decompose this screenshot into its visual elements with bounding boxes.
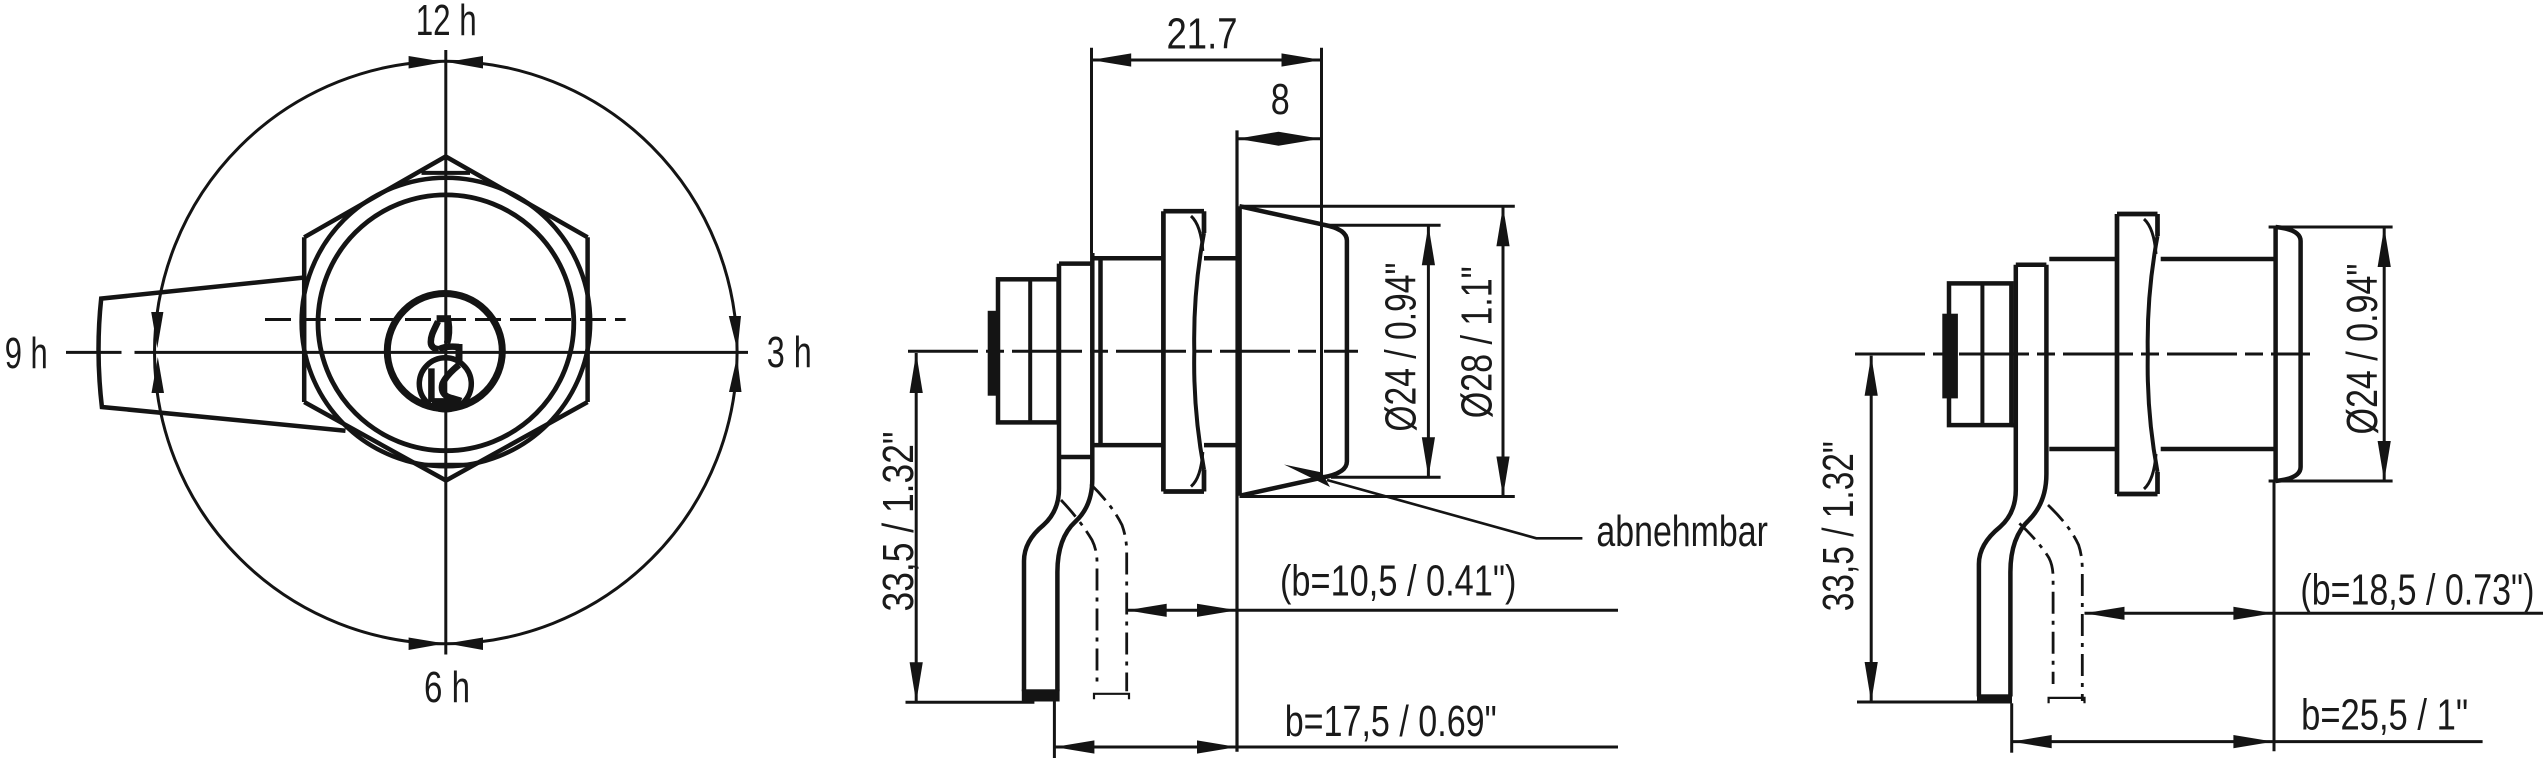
dim 21.7 line	[1091, 59, 1321, 62]
dim 8 arrows	[1237, 132, 1279, 146]
body top edge	[1094, 256, 1240, 261]
lever left edge right view	[1979, 265, 2016, 697]
big clock circle	[155, 61, 738, 644]
abnehmbar leader	[1327, 480, 1582, 538]
phantom cam outer right	[2048, 505, 2082, 701]
keyway top bar	[437, 315, 451, 322]
arrowheads 12h	[409, 56, 445, 69]
keyway lower S	[442, 365, 461, 401]
dashed horizontal line	[265, 318, 626, 321]
nut chamfer lines	[1191, 216, 1203, 487]
step piece right	[2016, 262, 2047, 267]
svg-text:12 h: 12 h	[416, 0, 477, 45]
arrowheads 9h	[151, 312, 163, 348]
lever right edge right view	[2010, 265, 2046, 697]
knob body	[998, 279, 1059, 422]
vertical centerline	[444, 50, 447, 655]
centerline right	[1855, 353, 2310, 356]
lever left edge	[1024, 264, 1059, 692]
dim D24 line	[1427, 225, 1430, 477]
dim D24 right line	[2383, 227, 2386, 481]
dim 21.7 arrows	[1091, 53, 1131, 66]
keyway left stroke	[431, 322, 439, 350]
dim D28 extension lines	[1240, 206, 1515, 496]
body bottom edge right	[2049, 447, 2275, 452]
svg-text:b=17,5 / 0.69": b=17,5 / 0.69"	[1285, 697, 1497, 746]
nut concave face right	[2148, 236, 2158, 472]
inner face circle	[318, 195, 574, 451]
hexagon chamfer chords	[422, 173, 471, 465]
knob inner line right	[1980, 283, 1984, 425]
svg-text:8: 8	[1271, 75, 1290, 124]
knob bottom bridge	[2011, 423, 2015, 428]
keyway right bar	[456, 344, 463, 365]
dim b10.5 arrows	[1127, 604, 1167, 617]
svg-text:b=25,5 / 1": b=25,5 / 1"	[2301, 691, 2468, 740]
dim 8 line	[1237, 137, 1321, 140]
knob body right	[1949, 283, 2011, 425]
abnehmbar leader arrow	[1284, 465, 1330, 488]
wing key grip	[99, 278, 346, 431]
dim D28 line	[1502, 206, 1505, 496]
lever bottom thick bar right	[1977, 694, 2012, 703]
dim 33.5 right ref line	[1857, 701, 2012, 704]
phantom cam outer line	[1091, 484, 1127, 691]
knob front bar	[988, 311, 1000, 396]
dim b10.5 line	[1127, 609, 1618, 612]
sleeve cup mouth edge	[1237, 206, 1242, 496]
lever back face line	[1098, 260, 1103, 445]
dim 33.5 right arrows	[1865, 356, 1878, 396]
outer face circle	[302, 178, 591, 467]
knob front bar right	[1942, 314, 1958, 399]
dim D28 arrows	[1496, 206, 1509, 246]
keyway cross bar	[439, 347, 459, 350]
dim D24 right arrows	[2378, 227, 2391, 267]
svg-text:33,5 / 1.32": 33,5 / 1.32"	[874, 432, 923, 612]
keyway right strand	[447, 322, 449, 344]
dim 33.5 middle ref line	[906, 701, 1035, 704]
flange mouth face	[2273, 227, 2278, 481]
horizontal centerline	[66, 351, 748, 354]
arrowheads 6h	[409, 638, 445, 651]
svg-text:9 h: 9 h	[5, 329, 48, 378]
nut right side view	[2117, 214, 2158, 494]
phantom cam inner right	[2019, 523, 2053, 684]
lever right edge	[1057, 253, 1092, 691]
dim 33.5 middle arrows	[910, 353, 923, 393]
svg-text:Ø24 / 0.94": Ø24 / 0.94"	[2338, 264, 2387, 435]
svg-text:Ø28 / 1.1": Ø28 / 1.1"	[1453, 266, 1502, 418]
dim D24 extension lines	[1322, 225, 1441, 477]
dim b17.5 line	[1054, 746, 1618, 749]
svg-text:(b=10,5 / 0.41"): (b=10,5 / 0.41")	[1280, 557, 1517, 606]
dim D24 right ext lines	[2269, 227, 2393, 481]
keyway bottom bar	[432, 398, 460, 405]
dim b17.5 arrows	[1054, 740, 1094, 753]
svg-text:(b=18,5 / 0.73"): (b=18,5 / 0.73")	[2300, 565, 2534, 614]
mounting plane reference line	[1235, 130, 1238, 751]
knob inner line	[1028, 279, 1032, 422]
dim 33.5 right line	[1870, 356, 1873, 702]
svg-text:Ø24 / 0.94": Ø24 / 0.94"	[1377, 263, 1426, 432]
phantom cam bottom right	[2049, 698, 2085, 703]
dim b17.5 extension	[1053, 700, 1056, 758]
flange profile	[2276, 227, 2301, 481]
dim D24 arrows	[1422, 225, 1435, 265]
step piece	[1059, 264, 1092, 457]
dim b18.5 line	[2085, 612, 2544, 615]
nut concave face	[1194, 233, 1204, 470]
nut chamfer right	[2144, 219, 2156, 489]
svg-text:21.7: 21.7	[1167, 10, 1238, 59]
dim 21.7 extension lines	[1092, 48, 1322, 480]
dim b25.5 arrows	[2012, 735, 2052, 748]
key plug circle	[387, 294, 502, 409]
dim 33.5 middle line	[915, 353, 918, 702]
centerline middle	[908, 350, 1358, 353]
dim b18.5 arrows	[2085, 607, 2125, 620]
svg-text:3 h: 3 h	[767, 328, 812, 377]
lever bottom thick bar	[1022, 689, 1060, 701]
body bottom edge	[1094, 443, 1240, 448]
svg-text:33,5 / 1.32": 33,5 / 1.32"	[1814, 441, 1863, 611]
arrowheads 3h	[729, 316, 741, 351]
hexagon nut edges	[304, 157, 587, 481]
svg-text:abnehmbar: abnehmbar	[1596, 507, 1768, 556]
nut side view	[1163, 211, 1204, 491]
dim b25.5 line	[2012, 740, 2483, 743]
dim b25.5 extension	[2010, 703, 2013, 752]
plane reference right	[2273, 481, 2276, 751]
phantom cam inner line	[1061, 500, 1097, 682]
hexagon flats	[304, 237, 587, 402]
svg-text:6 h: 6 h	[424, 663, 470, 712]
sleeve cup outline	[1240, 206, 1347, 496]
phantom cam bottom outline	[1094, 694, 1129, 699]
small stop circle	[419, 358, 471, 410]
keyway left bar	[428, 368, 435, 402]
body top edge right	[2049, 257, 2275, 262]
